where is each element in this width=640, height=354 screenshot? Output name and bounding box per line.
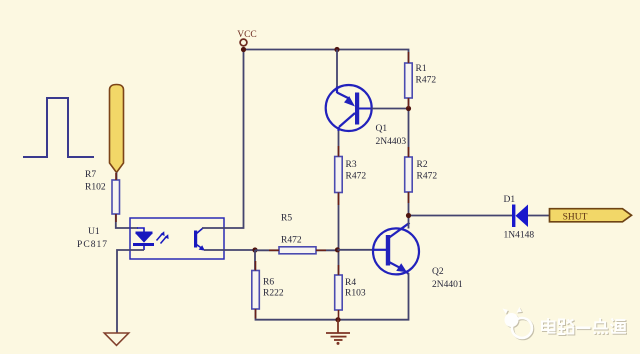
- wire Q2 collector up: [408, 216, 410, 229]
- junction R4 bottom / ground rail: [335, 317, 340, 322]
- pin R7.2: [115, 214, 117, 222]
- svg-text:R222: R222: [263, 289, 284, 299]
- wire Q1 emitter: [336, 50, 338, 88]
- svg-text:R5: R5: [281, 214, 292, 224]
- svg-text:R7: R7: [85, 170, 96, 180]
- diode D1 (1N4148): [512, 205, 528, 228]
- pin R1.2: [408, 98, 410, 108]
- component pin stubs (maroon): [116, 52, 409, 320]
- transistor Q2 (2N4401 NPN): [373, 223, 419, 275]
- svg-text:2N4401: 2N4401: [432, 280, 463, 290]
- wire U1 emitter to node: [204, 249, 255, 251]
- optocoupler U1 box: [130, 218, 224, 259]
- svg-text:R472: R472: [281, 236, 302, 246]
- resistor R7: [112, 180, 120, 214]
- junction at VCC: [241, 47, 246, 52]
- U1 phototransistor: [194, 228, 205, 251]
- svg-text:R1: R1: [416, 64, 427, 74]
- junction R5 / R3-R4 / Q2 base: [335, 247, 340, 252]
- wire top rail VCC to R1: [244, 50, 409, 64]
- transistor Q1 (2N4403 PNP): [326, 85, 372, 131]
- pin R4.1: [338, 265, 340, 275]
- wire R2 bottom to D1 node: [408, 192, 410, 216]
- svg-text:2N4403: 2N4403: [376, 137, 407, 147]
- svg-text:SHUT: SHUT: [563, 213, 588, 223]
- ground dot: [337, 342, 340, 345]
- wire Q1 base to R1 bottom: [372, 108, 409, 110]
- svg-text:R103: R103: [345, 289, 366, 299]
- pin R5.1: [269, 249, 279, 251]
- pin R2.1: [408, 147, 410, 157]
- junction R2 / D1 / Q2 collector: [406, 213, 411, 218]
- watermark logo: [503, 307, 533, 338]
- wire Q1 collector to R3: [338, 131, 340, 157]
- pin R6.1: [255, 261, 257, 271]
- pin R3.1: [338, 146, 340, 157]
- wire VCC vertical to U1 collector: [202, 50, 244, 229]
- svg-text:Q2: Q2: [432, 267, 444, 277]
- glyph 通: [612, 319, 614, 322]
- ground (earth): [326, 320, 350, 340]
- junction U1 emitter / R5 / R6: [252, 247, 257, 252]
- svg-text:R102: R102: [85, 183, 106, 193]
- svg-text:1N4148: 1N4148: [504, 231, 535, 241]
- junction at Q1 base / R1 / R2: [406, 106, 411, 111]
- glyph 电: [542, 322, 555, 331]
- U1 LED: [133, 228, 154, 250]
- wire R3 bottom to R4 top: [338, 193, 340, 276]
- glyph 一: [576, 326, 591, 329]
- svg-text:PC817: PC817: [77, 240, 107, 250]
- pin R6.2: [255, 309, 257, 319]
- port SHUT: [550, 209, 632, 222]
- pin R5.2: [316, 249, 326, 251]
- glyph 点: [599, 318, 601, 322]
- svg-text:U1: U1: [88, 227, 100, 237]
- resistor R6: [252, 271, 259, 310]
- pin R3.2: [338, 193, 340, 206]
- wire R6 bottom to ground rail: [256, 309, 339, 320]
- wire node to D1: [409, 215, 513, 217]
- watermark text (电路一点通, drawn as vector strokes): [542, 318, 626, 334]
- svg-text:D1: D1: [504, 195, 516, 205]
- wire R7 to U1 anode: [116, 214, 138, 228]
- pin R2.2: [408, 192, 410, 203]
- wire U1 cathode to ground: [117, 250, 144, 333]
- svg-text:R472: R472: [417, 172, 438, 182]
- resistor R2: [405, 157, 413, 192]
- wire R1 bottom to R2 top: [408, 98, 410, 157]
- wire node to R5: [255, 249, 279, 251]
- wire terminal to R7: [116, 173, 118, 182]
- junction at Q1 emitter / top rail: [334, 47, 339, 52]
- resistor R5: [279, 247, 316, 254]
- power port VCC: [240, 39, 247, 46]
- input pulse waveform: [23, 98, 94, 157]
- U1 light emission arrows: [157, 231, 169, 243]
- ground (signal ground triangle): [104, 333, 128, 345]
- pin R1.1: [408, 52, 410, 63]
- svg-text:R3: R3: [346, 160, 357, 170]
- svg-text:VCC: VCC: [237, 30, 257, 40]
- wire R5 to Q2 base node: [316, 249, 338, 251]
- svg-text:R6: R6: [263, 278, 274, 288]
- glyph 路: [559, 320, 564, 325]
- resistor R4: [335, 275, 343, 310]
- svg-text:R472: R472: [416, 76, 437, 86]
- svg-text:R4: R4: [345, 278, 356, 288]
- resistor R1: [405, 63, 413, 98]
- wire Q2 base: [338, 249, 375, 251]
- wire Q2 emitter to ground rail: [338, 273, 409, 320]
- resistor R3: [335, 157, 343, 193]
- wire D1 to SHUT port: [528, 215, 550, 217]
- svg-text:R472: R472: [346, 172, 367, 182]
- input terminal probe: [110, 85, 124, 173]
- wire R6 top: [254, 250, 256, 271]
- pin R4.2: [338, 310, 340, 320]
- svg-text:Q1: Q1: [376, 124, 388, 134]
- pin R7.1: [115, 173, 117, 180]
- svg-text:R2: R2: [417, 160, 428, 170]
